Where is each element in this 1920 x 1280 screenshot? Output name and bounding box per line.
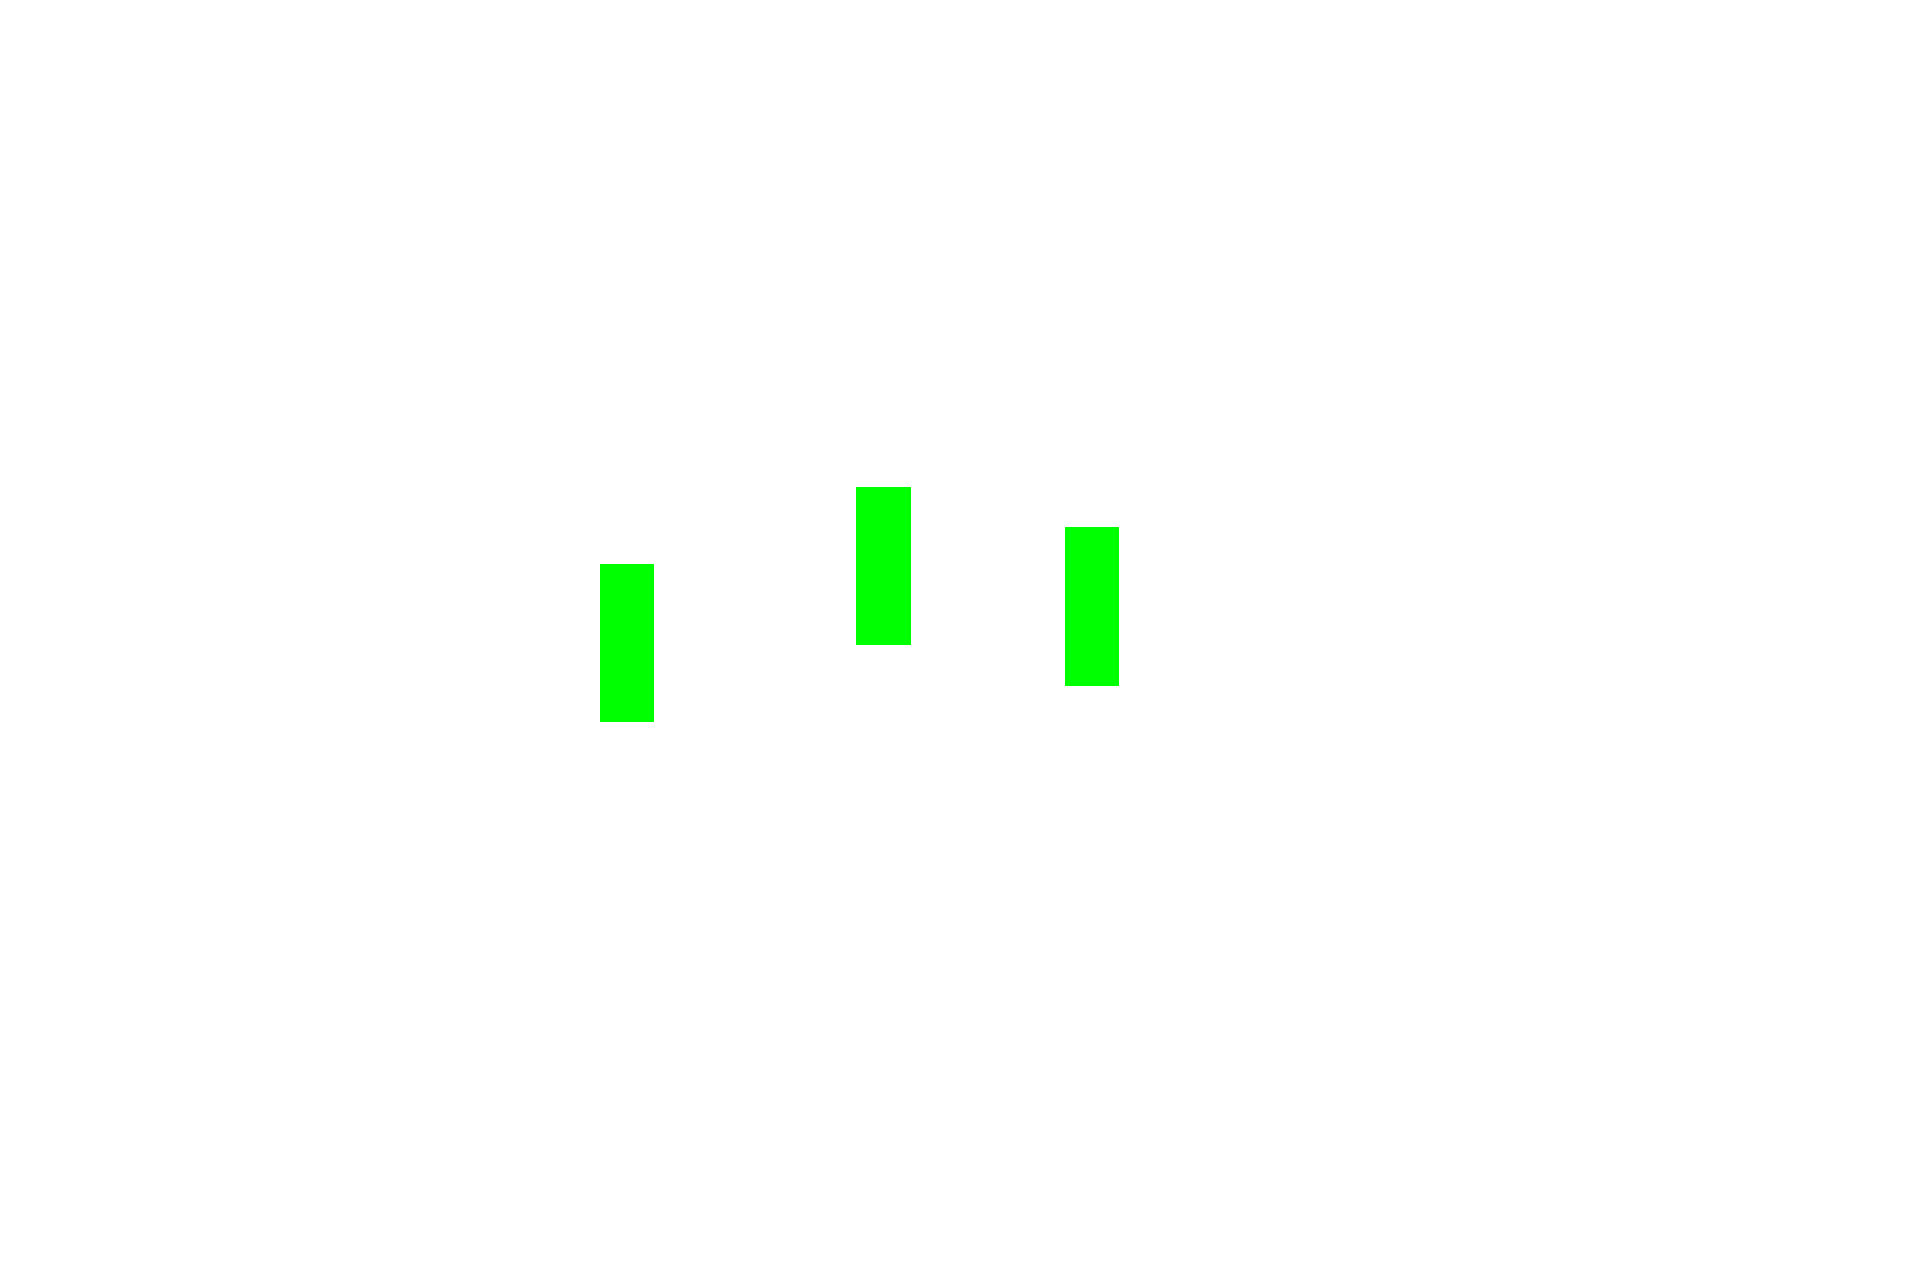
green bar 3 xyxy=(1065,527,1119,686)
green bar 2 xyxy=(856,487,911,645)
green bar 1 xyxy=(600,564,654,722)
